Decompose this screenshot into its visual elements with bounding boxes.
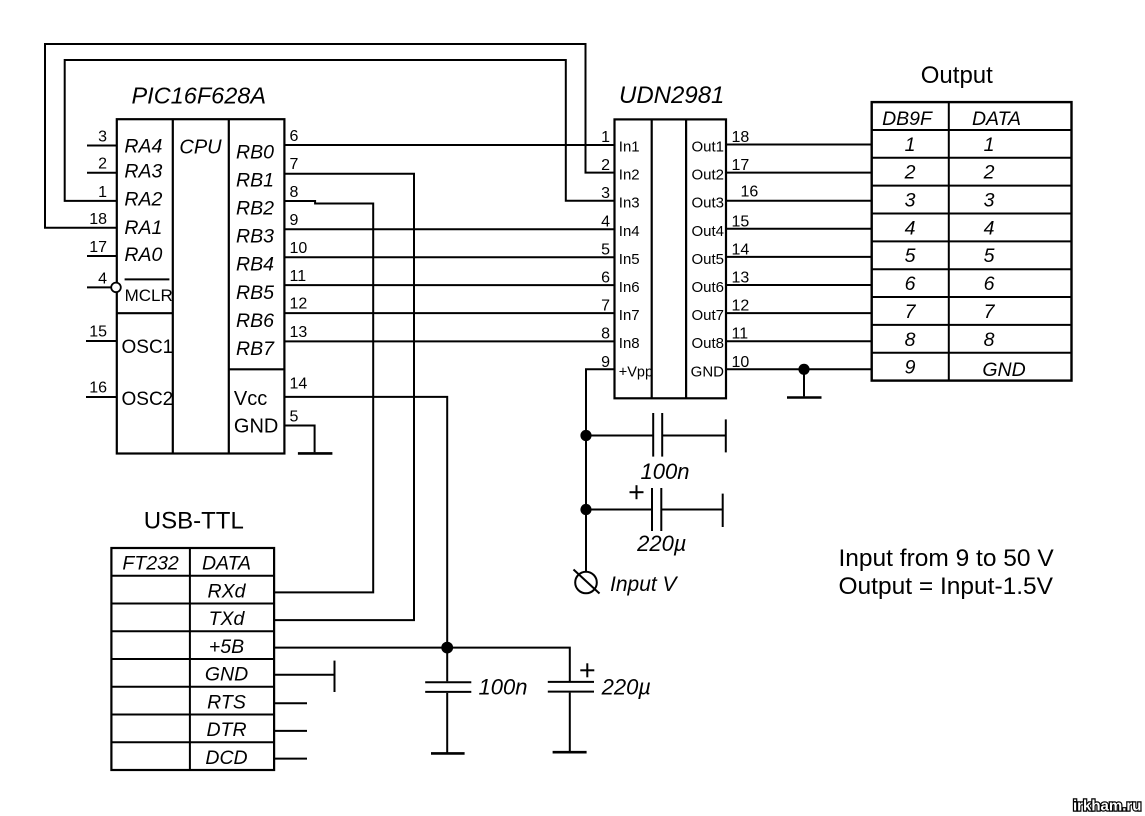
svg-text:PIC16F628A: PIC16F628A <box>132 82 267 108</box>
wire RA1 to In2 loop <box>45 44 615 228</box>
MCLR inversion bubble <box>111 283 121 293</box>
svg-text:9: 9 <box>290 212 299 229</box>
wire RB5 to In6 <box>284 284 614 286</box>
capacitor C3 100n (5V) <box>425 648 471 753</box>
wire pin2 RA3 stub <box>87 172 117 174</box>
wire DTR stub <box>274 730 307 732</box>
wire pin4 MCLR stub <box>87 286 111 288</box>
svg-text:In4: In4 <box>619 223 640 240</box>
junction dot Vpp-220u <box>580 504 591 515</box>
svg-text:10: 10 <box>290 240 308 257</box>
svg-text:18: 18 <box>89 211 107 228</box>
svg-text:1: 1 <box>98 184 107 201</box>
svg-text:12: 12 <box>732 298 750 315</box>
capacitor C2 220u polarized (input) <box>586 488 723 531</box>
svg-text:FT232: FT232 <box>122 552 179 574</box>
svg-text:DB9F: DB9F <box>882 108 933 130</box>
svg-text:4: 4 <box>601 213 610 230</box>
svg-text:In1: In1 <box>619 139 640 156</box>
IC U1 PIC16F628A body <box>117 119 285 453</box>
svg-text:9: 9 <box>601 354 610 371</box>
wire RB3 to In4 <box>284 228 614 230</box>
plus sign C2 <box>630 485 644 499</box>
wire Out7 to DB9 row 7 <box>726 312 872 314</box>
svg-text:UDN2981: UDN2981 <box>619 82 724 109</box>
svg-text:4: 4 <box>98 270 107 287</box>
wire Out5 to DB9 row 5 <box>726 256 872 258</box>
svg-text:RB0: RB0 <box>236 141 274 163</box>
svg-text:6: 6 <box>290 128 299 145</box>
wire GND pin5 <box>284 426 314 453</box>
svg-text:6: 6 <box>984 273 995 295</box>
svg-text:irkham.ru: irkham.ru <box>1073 798 1141 815</box>
svg-text:GND: GND <box>234 415 278 437</box>
svg-text:RB2: RB2 <box>236 198 274 220</box>
svg-text:17: 17 <box>732 157 750 174</box>
svg-text:8: 8 <box>601 326 610 343</box>
svg-text:12: 12 <box>290 296 308 313</box>
junction dot UDN GND <box>798 364 809 375</box>
svg-text:RB6: RB6 <box>236 310 274 332</box>
svg-text:2: 2 <box>601 157 610 174</box>
svg-text:1: 1 <box>905 134 916 156</box>
svg-text:18: 18 <box>732 129 750 146</box>
svg-text:In8: In8 <box>619 335 640 352</box>
svg-text:RB1: RB1 <box>236 169 274 191</box>
svg-text:TXd: TXd <box>209 608 246 630</box>
svg-text:Output = Input-1.5V: Output = Input-1.5V <box>839 573 1054 600</box>
plus sign C4 <box>580 663 594 677</box>
svg-text:USB-TTL: USB-TTL <box>144 507 244 534</box>
svg-text:DCD: DCD <box>205 747 247 769</box>
svg-text:GND: GND <box>205 664 248 686</box>
svg-text:OSC2: OSC2 <box>122 389 174 410</box>
svg-text:14: 14 <box>290 376 308 393</box>
svg-text:16: 16 <box>89 380 107 397</box>
svg-text:+Vpp: +Vpp <box>619 364 653 380</box>
svg-text:13: 13 <box>732 270 750 287</box>
svg-text:In2: In2 <box>619 167 640 184</box>
svg-text:7: 7 <box>984 301 996 323</box>
wire RB0 to In1 <box>284 144 614 146</box>
svg-text:3: 3 <box>905 190 916 212</box>
svg-text:5: 5 <box>905 245 916 267</box>
svg-text:RB5: RB5 <box>236 282 274 304</box>
wire GND row to termination <box>274 674 334 676</box>
wire RB7 to In8 <box>284 340 614 342</box>
wire +5B rail <box>274 648 570 682</box>
svg-text:14: 14 <box>732 241 750 258</box>
svg-text:17: 17 <box>89 239 107 256</box>
svg-text:3: 3 <box>984 190 995 212</box>
wire RB2 to RXd <box>274 201 373 592</box>
svg-text:7: 7 <box>905 301 917 323</box>
wire Out6 to DB9 row 6 <box>726 284 872 286</box>
wire pin3 RA4 stub <box>87 145 117 147</box>
svg-text:100n: 100n <box>479 674 528 699</box>
svg-text:6: 6 <box>601 270 610 287</box>
svg-text:Out6: Out6 <box>691 279 724 296</box>
svg-text:7: 7 <box>601 298 610 315</box>
wire RB1 to TXd <box>274 174 414 620</box>
ground bar C4 <box>553 751 587 754</box>
svg-text:Output: Output <box>921 62 993 89</box>
svg-text:100n: 100n <box>641 459 690 484</box>
svg-text:1: 1 <box>984 134 995 156</box>
junction dot +5V <box>441 642 453 654</box>
termination bar GND <box>334 661 336 692</box>
svg-text:+5B: +5B <box>209 636 244 658</box>
capacitor C1 100n (input) <box>586 413 726 457</box>
svg-text:4: 4 <box>984 217 995 239</box>
svg-text:5: 5 <box>601 241 610 258</box>
svg-text:OSC1: OSC1 <box>122 337 174 358</box>
wire Out3 to DB9 row 3 <box>726 200 872 202</box>
ground bar C3 <box>431 752 465 755</box>
svg-text:RA2: RA2 <box>124 189 162 211</box>
svg-text:MCLR: MCLR <box>125 286 173 305</box>
svg-text:Input from 9 to 50 V: Input from 9 to 50 V <box>839 545 1055 572</box>
svg-text:10: 10 <box>732 354 750 371</box>
wire RA2 to In3 loop <box>65 60 615 201</box>
svg-text:RA4: RA4 <box>124 136 162 158</box>
svg-text:Out3: Out3 <box>691 195 724 212</box>
svg-text:RB7: RB7 <box>236 338 275 360</box>
svg-text:In3: In3 <box>619 195 640 212</box>
capacitor C4 220u polarized (5V) <box>548 682 594 751</box>
svg-text:8: 8 <box>984 329 995 351</box>
wire +Vpp pin9 <box>586 369 615 571</box>
Input V terminal symbol <box>574 570 600 594</box>
svg-text:15: 15 <box>89 323 107 340</box>
svg-text:9: 9 <box>905 357 916 379</box>
svg-text:13: 13 <box>290 324 308 341</box>
svg-text:11: 11 <box>290 268 307 285</box>
svg-text:RB4: RB4 <box>236 254 274 276</box>
svg-text:Out4: Out4 <box>691 223 724 240</box>
svg-text:GND: GND <box>982 359 1025 381</box>
svg-text:CPU: CPU <box>179 137 222 159</box>
svg-text:7: 7 <box>290 156 299 173</box>
wire Vcc pin14 to +5V rail <box>284 397 447 648</box>
svg-text:RA0: RA0 <box>124 244 162 266</box>
wire Out1 to DB9 row 1 <box>726 144 872 146</box>
svg-text:RXd: RXd <box>208 580 247 602</box>
ground bar UDN GND <box>787 396 822 399</box>
wire RB4 to In5 <box>284 256 614 258</box>
svg-text:DATA: DATA <box>202 552 251 574</box>
svg-text:11: 11 <box>732 326 749 343</box>
wire RB6 to In7 <box>284 312 614 314</box>
USB-TTL FT232 table <box>111 548 274 770</box>
svg-text:4: 4 <box>905 217 916 239</box>
svg-text:Vcc: Vcc <box>234 388 267 410</box>
svg-text:Out1: Out1 <box>691 139 724 156</box>
pin label MCLR with overline <box>125 279 173 304</box>
svg-text:220µ: 220µ <box>636 531 686 556</box>
Output DB9 table <box>872 102 1072 381</box>
wire pin15 OSC1 stub <box>86 340 117 342</box>
IC U2 UDN2981 body <box>615 119 727 398</box>
svg-text:8: 8 <box>905 329 916 351</box>
wire DCD stub <box>274 758 307 760</box>
svg-text:15: 15 <box>732 213 750 230</box>
svg-text:Out2: Out2 <box>691 167 724 184</box>
svg-text:DATA: DATA <box>972 108 1021 130</box>
svg-text:2: 2 <box>983 162 995 184</box>
svg-text:3: 3 <box>98 129 107 146</box>
svg-text:In7: In7 <box>619 307 640 324</box>
svg-text:Out5: Out5 <box>691 251 724 268</box>
svg-text:3: 3 <box>601 185 610 202</box>
svg-text:2: 2 <box>98 156 107 173</box>
svg-text:5: 5 <box>290 408 299 425</box>
svg-text:1: 1 <box>601 129 610 146</box>
svg-text:RTS: RTS <box>207 691 246 713</box>
svg-text:GND: GND <box>691 363 725 380</box>
svg-text:In5: In5 <box>619 251 640 268</box>
svg-text:RA3: RA3 <box>124 161 162 183</box>
wire pin17 RA0 stub <box>87 255 117 257</box>
svg-text:In6: In6 <box>619 279 640 296</box>
wire pin16 OSC2 stub <box>86 396 117 398</box>
wire GND drop <box>803 369 805 396</box>
svg-text:8: 8 <box>290 184 299 201</box>
svg-text:5: 5 <box>984 245 995 267</box>
wire Out2 to DB9 row 2 <box>726 172 872 174</box>
wire RTS stub <box>274 702 307 704</box>
svg-text:220µ: 220µ <box>601 675 651 700</box>
ground bar PIC GND <box>298 452 333 455</box>
junction dot Vpp-100n <box>580 430 591 441</box>
svg-text:RA1: RA1 <box>124 217 162 239</box>
wire Out8 to DB9 row 8 <box>726 340 872 342</box>
svg-text:16: 16 <box>741 184 759 201</box>
svg-text:2: 2 <box>904 162 916 184</box>
svg-text:Out7: Out7 <box>691 307 724 324</box>
wire Out4 to DB9 row 4 <box>726 228 872 230</box>
svg-text:6: 6 <box>905 273 916 295</box>
svg-text:Out8: Out8 <box>691 335 724 352</box>
svg-text:DTR: DTR <box>206 719 246 741</box>
wire UDN GND pin10 to DB9 row 9 <box>726 368 872 370</box>
svg-text:Input V: Input V <box>610 573 679 596</box>
svg-text:RB3: RB3 <box>236 226 274 248</box>
